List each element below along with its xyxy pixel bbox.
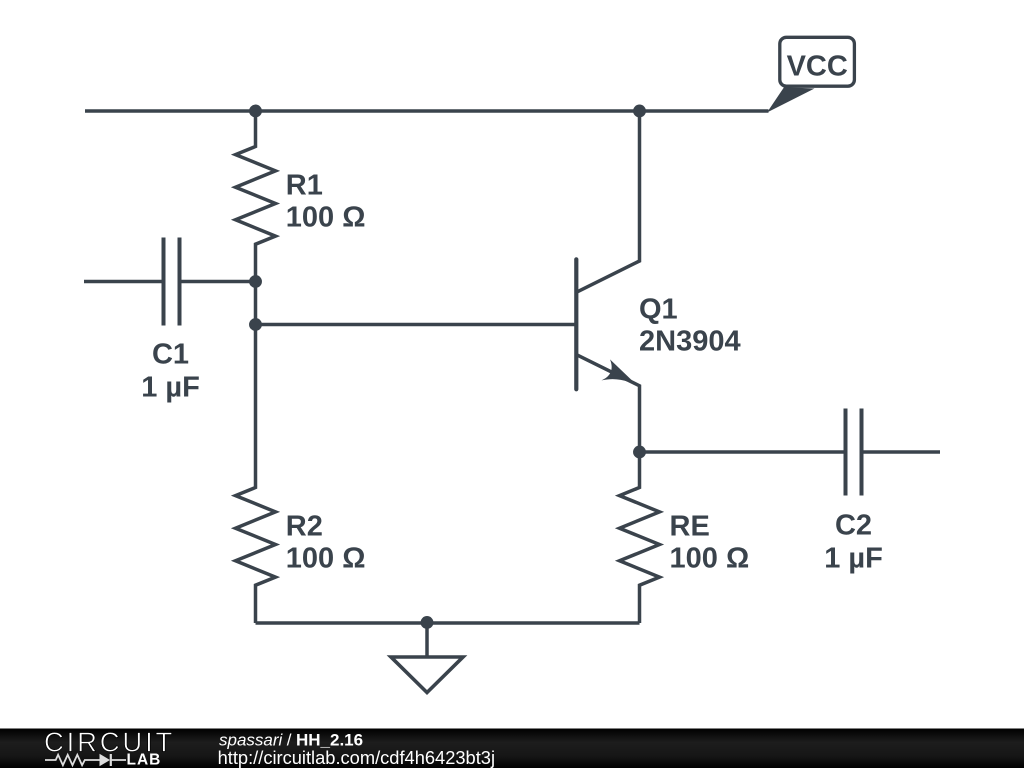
svg-text:R1: R1 [286, 169, 323, 201]
svg-text:LAB: LAB [127, 751, 162, 768]
svg-text:VCC: VCC [787, 50, 848, 82]
svg-text:1 µF: 1 µF [824, 542, 883, 574]
svg-text:2N3904: 2N3904 [639, 326, 741, 358]
svg-text:C1: C1 [152, 339, 189, 371]
svg-text:http://circuitlab.com/cdf4h642: http://circuitlab.com/cdf4h6423bt3j [218, 747, 495, 768]
svg-text:100 Ω: 100 Ω [670, 543, 750, 575]
svg-text:C2: C2 [835, 509, 872, 541]
svg-text:1 µF: 1 µF [141, 372, 200, 404]
svg-text:RE: RE [670, 511, 710, 543]
svg-text:R2: R2 [286, 511, 323, 543]
svg-text:100 Ω: 100 Ω [286, 201, 366, 233]
svg-text:Q1: Q1 [639, 294, 678, 326]
svg-text:100 Ω: 100 Ω [286, 543, 366, 575]
